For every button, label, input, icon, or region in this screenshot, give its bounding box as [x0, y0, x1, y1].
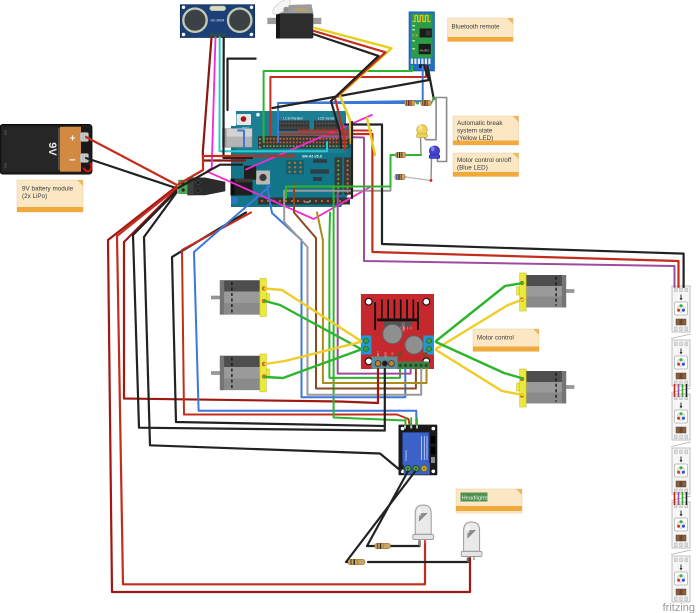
USB connector	[223, 129, 253, 148]
note: Headlights	[456, 489, 522, 513]
LED strip segment 4	[672, 448, 690, 494]
wire sensor echo cyan	[220, 38, 328, 152]
svg-text:Automatic break: Automatic break	[457, 120, 503, 127]
resistor R4	[395, 174, 405, 179]
wire jack to relay GND black	[144, 193, 401, 471]
junction red tip at blue LED leg	[430, 179, 433, 182]
wire jack to Arduino GND black	[178, 165, 242, 188]
wire motor M4 yellow	[436, 350, 523, 395]
wire jack to headlight LED2 red	[108, 187, 470, 593]
wire black vertical at Arduino right	[351, 122, 353, 198]
strip jumper wires between segment 4 and 5	[675, 492, 687, 505]
wire BT VCC red	[270, 66, 426, 135]
motor M1 (top-left)	[211, 279, 269, 317]
wire Arduino to L298N brown	[294, 184, 416, 389]
wire BT TX green	[264, 66, 412, 142]
svg-text:V: V	[259, 141, 261, 145]
wire relay to resistor R6 black	[346, 472, 415, 563]
wire blue LED left leg to resistor	[430, 159, 433, 181]
wire motor M2 yellow	[265, 342, 361, 364]
svg-text:−: −	[69, 155, 75, 167]
wire battery plus to jack	[86, 137, 176, 185]
wire sensor VCC dark red to Arduino Vin	[203, 38, 245, 161]
LED strip segment 1	[672, 286, 690, 332]
wire blue resistor feed	[278, 102, 405, 104]
motor M2 (bottom-left)	[211, 354, 269, 392]
wire motor M2 green	[265, 350, 361, 379]
wire short blue stub	[238, 131, 244, 148]
svg-text:Headlights: Headlights	[462, 496, 489, 502]
wire servo VCC red	[314, 31, 386, 150]
wire blue LED resistor to L298N grey	[284, 177, 421, 395]
svg-text:HC-SR04: HC-SR04	[211, 19, 225, 23]
wire motor M1 yellow	[265, 289, 361, 342]
wire Arduino to L298N purple	[338, 193, 411, 374]
wire Arduino to LED strip purple	[320, 137, 675, 288]
wire battery minus to jack	[86, 158, 176, 188]
motor M4 (bottom-right)	[517, 369, 574, 407]
Bluetooth module HC-05	[409, 12, 435, 71]
wire battery red curl	[84, 164, 91, 172]
wire Arduino GND loop black	[172, 213, 384, 427]
strip separator marks	[671, 334, 691, 555]
wire jack to Arduino Vin red	[178, 156, 294, 185]
svg-text:system state: system state	[457, 128, 493, 135]
headlight LED2 (white)	[461, 522, 482, 562]
resistor R2	[421, 100, 432, 105]
wire jack to L298N GND black	[133, 191, 385, 431]
wire jack to headlight LED1 red	[117, 188, 425, 584]
note: Motor control on/off (Blue LED)	[453, 153, 519, 177]
wire BT RX blue	[278, 66, 423, 142]
wire grey loop to yellow LED	[424, 99, 436, 140]
servo motor	[267, 0, 321, 39]
wire jack to L298N 12V red	[124, 190, 378, 404]
wire relay pin stubs green	[405, 418, 407, 425]
LED strip segment 6	[672, 556, 690, 602]
wire red upper segment	[299, 130, 371, 132]
junction dot at resistor junction	[432, 97, 435, 100]
svg-text:G: G	[259, 137, 261, 141]
svg-text:9V: 9V	[46, 142, 58, 156]
Arduino Uno board	[231, 126, 353, 207]
note: Automatic break system state (Yellow LED)	[453, 116, 519, 145]
note: Bluetooth remote	[448, 18, 513, 42]
wire shield to LED strip red	[278, 134, 679, 287]
motor driver L298N	[361, 294, 434, 369]
wire servo GND black	[313, 34, 379, 148]
wire grey loop to blue LED	[434, 98, 447, 162]
wire Arduino to relay IN blue	[194, 186, 416, 425]
svg-text:Bluetooth remote: Bluetooth remote	[452, 24, 500, 31]
resistor R6	[348, 559, 365, 564]
wire sensor GND black	[224, 38, 253, 158]
svg-text:9V battery module: 9V battery module	[22, 186, 74, 193]
wire Arduino to L298N green	[329, 213, 400, 378]
junction dot between R1 R2	[416, 102, 419, 105]
wire relay to resistor R5 black	[367, 472, 408, 547]
wire motor M4 green	[436, 342, 523, 379]
resistor R1	[405, 100, 415, 105]
wire magenta second segment	[246, 115, 372, 169]
yellow LED	[417, 125, 428, 138]
LED strip segment 3	[672, 394, 690, 440]
relay module	[399, 425, 438, 476]
svg-text:(Blue LED): (Blue LED)	[457, 165, 488, 172]
svg-text:SERVO: SERVO	[295, 8, 308, 12]
blue LED	[429, 146, 439, 158]
wire resistor R2 to junction	[431, 100, 433, 104]
svg-text:LCD-Parallel: LCD-Parallel	[283, 116, 302, 120]
wire Arduino to L298N IN blue	[267, 186, 405, 397]
wire BT to LED strip black	[345, 125, 684, 288]
note: Motor control	[473, 329, 539, 351]
wire servo signal yellow	[315, 28, 392, 143]
sensor shield v5.0	[236, 111, 350, 153]
svg-text:Motor control on/off: Motor control on/off	[457, 157, 511, 164]
svg-text:T: T	[184, 33, 186, 37]
power jack (on Arduino)	[231, 179, 253, 196]
wire Arduino 5V to relay red	[182, 213, 410, 425]
svg-text:(Yellow LED): (Yellow LED)	[457, 135, 493, 142]
svg-text:fritzing: fritzing	[663, 602, 695, 613]
svg-text:UAF: UAF	[304, 200, 310, 204]
wire resistor R4 to blue LED	[405, 177, 431, 181]
ultrasonic sensor HC-SR04	[180, 5, 254, 38]
wire motor M3 yellow	[436, 300, 523, 350]
svg-text:MAJIRO: MAJIRO	[420, 49, 430, 53]
note: 9V battery module (2x LiPo)	[17, 180, 83, 212]
strip jumper wires between segment 2 and 3	[675, 384, 687, 397]
LED strip segment 5	[672, 502, 690, 548]
wire yellow stub to pin	[367, 118, 375, 155]
svg-text:+12V: +12V	[376, 351, 379, 357]
svg-text:SONGLE: SONGLE	[404, 450, 408, 461]
wire sensor trig magenta	[207, 38, 372, 220]
wire L298N 12V red stub	[377, 369, 379, 403]
svg-text:GND: GND	[384, 352, 387, 358]
wire L298N GND black stub	[384, 369, 386, 431]
svg-text:S: S	[259, 145, 261, 149]
wire R5 to headlight LED1 black	[391, 541, 420, 546]
svg-text:(2x LiPo): (2x LiPo)	[22, 193, 47, 200]
wire Arduino to L298N olive	[317, 213, 427, 384]
resistor R3	[395, 152, 405, 157]
motor M3 (top-right)	[517, 273, 574, 311]
barrel jack adapter with screw terminal	[179, 178, 226, 196]
wire motor M3 green	[436, 283, 523, 341]
wire motor M1 green	[265, 301, 361, 349]
battery 9V	[0, 124, 92, 174]
svg-text:LCD-Serial: LCD-Serial	[318, 116, 335, 120]
wire Arduino to relay green	[334, 186, 406, 425]
wire BT black to junction	[428, 66, 434, 98]
wire yellow LED left leg	[420, 137, 423, 156]
svg-text:Motor control: Motor control	[477, 335, 514, 342]
wire R6 to headlight LED2 black	[368, 559, 468, 563]
wire black loop top-left	[228, 59, 256, 110]
wire BT black to board	[273, 66, 429, 108]
LED strip segment 2	[672, 340, 690, 386]
resistor R5	[375, 543, 391, 548]
wire green LED feed	[406, 154, 421, 156]
svg-text:L298N: L298N	[402, 323, 406, 332]
svg-text:SN-At v5.0: SN-At v5.0	[302, 154, 323, 159]
svg-text:+: +	[70, 134, 76, 145]
headlight LED1 (white)	[413, 505, 434, 546]
